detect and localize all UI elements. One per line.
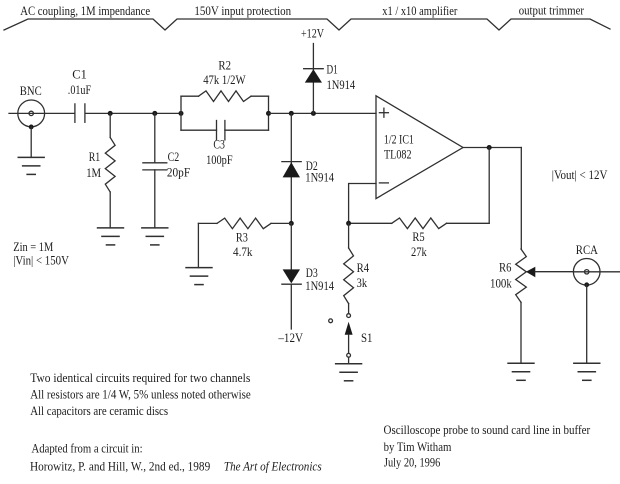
section label: output trimmer	[519, 3, 585, 18]
svg-text:BNC: BNC	[20, 83, 42, 98]
svg-text:output trimmer: output trimmer	[519, 3, 585, 18]
potentiometer R6 100k	[490, 249, 573, 363]
wire op-amp output	[463, 147, 521, 149]
svg-text:R2: R2	[218, 57, 231, 72]
BNC connector J1	[9, 83, 74, 130]
svg-text:D1: D1	[327, 61, 338, 76]
svg-text:+12V: +12V	[301, 26, 324, 41]
svg-text:–12V: –12V	[278, 330, 304, 345]
resistor R4 3k	[344, 223, 370, 313]
svg-text:All resistors are 1/4 W, 5% un: All resistors are 1/4 W, 5% unless noted…	[30, 387, 251, 402]
node: R1 junction	[108, 111, 113, 116]
svg-text:1N914: 1N914	[327, 77, 356, 92]
node: C2 junction	[152, 111, 157, 116]
wire box left edge	[180, 96, 182, 130]
node: D2 junction	[289, 111, 294, 116]
note: Vout limit	[552, 167, 608, 182]
note: Zin	[13, 239, 53, 254]
svg-text:R6: R6	[499, 260, 512, 275]
svg-text:The Art of Electronics: The Art of Electronics	[224, 458, 322, 473]
diode D1 1N914	[304, 44, 356, 114]
capacitor C3 100pF (bottom branch)	[181, 96, 269, 167]
+12V supply label	[301, 26, 324, 41]
ground (S1)	[335, 364, 362, 381]
node: box left junction	[179, 111, 184, 116]
svg-text:20pF: 20pF	[167, 165, 190, 180]
note: adapted from	[32, 440, 143, 455]
node: R3/D3 junction	[289, 221, 294, 226]
ground (R1)	[97, 228, 124, 245]
svg-text:|Vout| < 12V: |Vout| < 12V	[552, 167, 608, 182]
section label: 150V input protection	[194, 3, 291, 18]
svg-text:1N914: 1N914	[305, 278, 334, 293]
title: author	[384, 439, 452, 454]
wire C1 to R2/C3 box	[85, 112, 181, 114]
ground (RCA)	[573, 363, 600, 380]
header bracket divider line	[4, 19, 610, 30]
wire RCA shield to ground	[586, 285, 588, 364]
op-amp U1 1/2 IC1 TL082	[376, 96, 463, 199]
ground (R3)	[185, 268, 212, 285]
resistor R1 1M	[86, 113, 115, 227]
wire feedback down	[488, 148, 490, 224]
svg-text:All capacitors are ceramic dis: All capacitors are ceramic discs	[30, 403, 168, 418]
svg-text:C2: C2	[168, 149, 180, 164]
svg-text:RCA: RCA	[576, 242, 599, 257]
switch S1	[329, 314, 373, 364]
svg-text:1/2 IC1: 1/2 IC1	[384, 131, 414, 146]
ground (C2)	[141, 228, 168, 245]
svg-text:27k: 27k	[411, 244, 427, 259]
ground (R6)	[507, 363, 534, 380]
capacitor C1 .01uF	[68, 67, 91, 123]
RCA connector J2	[573, 242, 619, 287]
svg-text:1M: 1M	[86, 165, 101, 180]
svg-text:150V input protection: 150V input protection	[194, 3, 291, 18]
note: all capacitors	[30, 403, 168, 418]
svg-text:.01uF: .01uF	[68, 82, 91, 97]
svg-text:|Vin| < 150V: |Vin| < 150V	[13, 253, 69, 268]
node: R4/R5 junction	[346, 221, 351, 226]
title: oscilloscope probe buffer	[384, 422, 591, 437]
note: two identical circuits	[30, 370, 250, 385]
svg-text:R5: R5	[412, 229, 424, 244]
title: date	[384, 455, 441, 470]
svg-text:R3: R3	[236, 229, 248, 244]
svg-text:by Tim Witham: by Tim Witham	[384, 439, 452, 454]
svg-text:3k: 3k	[357, 275, 368, 290]
svg-text:Oscilloscope probe to sound ca: Oscilloscope probe to sound card line in…	[384, 422, 591, 437]
wire BNC shield to ground	[30, 127, 32, 157]
svg-text:Horowitz, P. and Hill, W., 2nd: Horowitz, P. and Hill, W., 2nd ed., 1989	[30, 458, 210, 473]
ground (BNC)	[18, 157, 45, 174]
svg-text:1N914: 1N914	[305, 170, 334, 185]
svg-text:Adapted from a circuit in:: Adapted from a circuit in:	[32, 440, 143, 455]
-12V supply label	[278, 330, 304, 345]
svg-text:100pF: 100pF	[206, 152, 233, 167]
wire output to R6	[520, 148, 522, 250]
svg-text:July 20, 1996: July 20, 1996	[384, 455, 441, 470]
svg-text:S1: S1	[361, 330, 373, 345]
svg-text:R4: R4	[357, 260, 370, 275]
node: D1 junction	[311, 111, 316, 116]
node: box right junction	[266, 111, 271, 116]
svg-text:AC coupling, 1M impendance: AC coupling, 1M impendance	[20, 3, 150, 18]
resistor R5 27k	[349, 218, 490, 259]
diode D3 1N914	[282, 223, 335, 329]
note: reference	[30, 458, 322, 473]
section label: x1 / x10 amplifier	[382, 3, 458, 18]
svg-text:C3: C3	[213, 136, 225, 151]
svg-text:R1: R1	[89, 149, 101, 164]
resistor R3 4.7k	[198, 218, 291, 268]
node: output junction	[487, 145, 492, 150]
diode D2 1N914	[282, 113, 335, 223]
svg-text:4.7k: 4.7k	[233, 244, 253, 259]
capacitor C2 20pF	[143, 113, 190, 227]
wire box to op-amp + input	[269, 112, 377, 114]
note: Vin limit	[13, 253, 69, 268]
svg-text:x1 / x10 amplifier: x1 / x10 amplifier	[382, 3, 458, 18]
svg-text:100k: 100k	[490, 276, 512, 291]
section label: AC coupling, 1M impendance	[20, 3, 150, 18]
svg-text:TL082: TL082	[384, 147, 412, 162]
svg-text:47k 1/2W: 47k 1/2W	[203, 72, 246, 87]
svg-text:Two identical circuits require: Two identical circuits required for two …	[30, 370, 250, 385]
resistor R2 47k 1/2W (top branch)	[181, 57, 269, 101]
wire inverting input	[349, 184, 376, 224]
note: all resistors	[30, 387, 251, 402]
svg-text:C1: C1	[72, 67, 87, 82]
